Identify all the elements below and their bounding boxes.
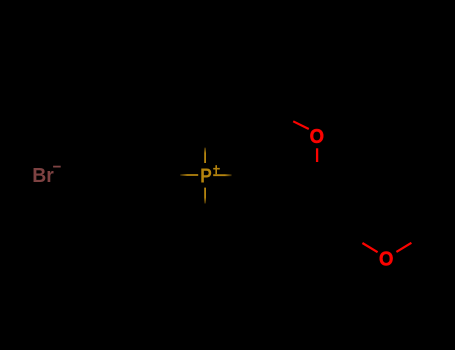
plus charge on P (horizontal bar) [213,168,220,170]
bond O2 to ring carbon (down) [316,148,318,162]
bond P to phenyl ring (up) [204,148,206,163]
bond P to phenyl ring (left) [180,174,198,176]
bond O2 to methyl carbon (up-left) [293,121,309,129]
svg-text:O: O [310,126,324,148]
bond P to benzyl CH2 (right) [213,174,231,176]
bromide counter-ion Br- [32,164,54,187]
bond P to phenyl ring (down) [204,188,206,204]
svg-text:Br: Br [32,164,54,187]
methoxy oxygen O (ring 2-position, upper) [310,126,324,148]
methoxy oxygen O (ring 4-position, lower) [379,248,393,270]
svg-text:O: O [379,248,393,270]
bond O4 to methyl carbon (up-right) [396,243,411,252]
minus charge on Br [53,166,61,168]
svg-text:P: P [200,165,212,188]
plus charge on P (vertical bar) [215,165,217,174]
bond O4 to ring carbon (up-left) [362,243,377,252]
phosphonium atom P [200,165,212,188]
